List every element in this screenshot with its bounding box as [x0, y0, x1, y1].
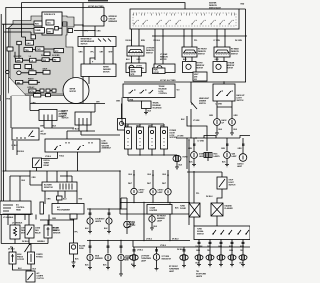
wire bus y214 [3, 213, 34, 215]
wire backup feed [223, 82, 225, 84]
svg-text:DK BLU: DK BLU [206, 196, 213, 198]
wire defog feed [36, 168, 38, 172]
svg-text:MOTOR: MOTOR [103, 71, 110, 73]
fuse STOP HAZ [54, 49, 64, 53]
side marker lamp 3 [118, 254, 124, 260]
headlight dimmer switch [191, 82, 197, 109]
fuse SI RD [53, 58, 60, 62]
reading lamps resistor [204, 153, 212, 158]
wire lt front drops [132, 56, 140, 63]
svg-text:MOTOR: MOTOR [160, 59, 167, 61]
wire left edge vertical A [0, 14, 2, 244]
cigar lighter box [147, 205, 172, 215]
wire glv ground [126, 228, 128, 234]
svg-text:LAMP: LAMP [237, 165, 243, 168]
rear defog relay box [33, 158, 42, 168]
wire red feed [239, 9, 246, 82]
svg-text:LAMP: LAMP [157, 219, 163, 222]
connector hash marks [198, 242, 245, 243]
connector RDO [34, 21, 42, 26]
svg-text:RELAY: RELAY [41, 132, 48, 135]
svg-text:LAMP: LAMP [169, 270, 175, 273]
svg-text:SWITCH: SWITCH [197, 233, 205, 235]
wire inline fuse feed [73, 219, 75, 243]
fuse TURN [24, 48, 32, 52]
wire lamp grounds to bus [134, 195, 168, 203]
wire bus y7.5 [6, 8, 104, 25]
fuse mid row extra 4 [25, 65, 32, 69]
svg-text:FITTING: FITTING [36, 256, 43, 258]
svg-text:SWITCH: SWITCH [62, 118, 70, 120]
ground st3 [219, 265, 223, 267]
wire to pressure switches [10, 244, 31, 253]
fuse STOP [43, 70, 50, 74]
svg-text:T BLU: T BLU [59, 156, 65, 158]
washer pump connector box [75, 112, 91, 125]
wire turn flasher feed [193, 171, 195, 203]
svg-text:DK BLU: DK BLU [126, 40, 133, 42]
svg-text:LT BLU: LT BLU [160, 245, 167, 247]
fuse HTR [29, 89, 36, 93]
svg-text:CLUTCH: CLUTCH [37, 278, 45, 280]
stop turn lamp 2 [206, 255, 214, 260]
wire programmer outs [40, 215, 74, 221]
wire inner elbow [121, 198, 127, 220]
cb label box [70, 214, 77, 219]
cargo lamp [239, 154, 247, 162]
arrowheads [133, 175, 169, 178]
backup lamp left [214, 119, 221, 126]
svg-text:DK BLU: DK BLU [18, 151, 25, 153]
wire pump feed [91, 104, 95, 113]
wire fan outs [1, 238, 48, 244]
svg-text:FLASHER: FLASHER [225, 207, 234, 210]
stop light switch [217, 177, 227, 189]
ground park2 [182, 266, 186, 268]
st turn indicator [153, 254, 159, 260]
ground dome [192, 165, 196, 167]
conn sq 2 [46, 89, 50, 92]
svg-text:DOOR: DOOR [154, 72, 160, 74]
wire park grounds [134, 260, 184, 268]
wire rt front drops [186, 57, 193, 61]
ground park1 [132, 266, 136, 268]
stop turn lamp 5 [239, 255, 247, 260]
svg-text:GRN/BLK: GRN/BLK [37, 241, 46, 243]
wire cluster drops [42, 152, 78, 171]
svg-text:RDO: RDO [35, 24, 39, 26]
bottom left smudge [0, 95, 2, 101]
svg-text:MOTOR: MOTOR [197, 67, 204, 69]
a/c compressor clutch switch [26, 271, 35, 282]
fuse PWR [36, 47, 44, 51]
wire link bus y36 [152, 35, 246, 37]
rt front marker lamp [149, 216, 155, 222]
compressor lamp 2 [106, 218, 112, 224]
panel oval B [17, 71, 21, 75]
svg-text:SWITCH: SWITCH [231, 53, 239, 55]
svg-text:SWITCH: SWITCH [198, 53, 206, 55]
svg-text:LAMP: LAMP [232, 155, 238, 158]
door lock motor 4 [161, 127, 168, 149]
a/c programmer box [52, 204, 84, 215]
ground st1 [197, 265, 201, 267]
svg-text:LT BLU: LT BLU [137, 250, 144, 252]
ground sm1 [88, 268, 92, 270]
wire comp grounds [90, 225, 109, 232]
svg-text:PARK: PARK [124, 258, 130, 261]
wire blower feeds [13, 141, 17, 155]
lt rear window motor [154, 64, 175, 73]
washer pump motor box [121, 104, 123, 119]
svg-text:LAMPS: LAMPS [214, 155, 221, 158]
wire park bus y247 [133, 241, 250, 248]
fuse LPS [31, 35, 36, 39]
wire breaker out [83, 3, 104, 37]
svg-text:HOT AT ALL TIMES: HOT AT ALL TIMES [88, 5, 104, 8]
bus y214 [120, 213, 190, 215]
switch contacts row [133, 14, 235, 25]
fuse TAIL [16, 80, 23, 84]
svg-text:RESISTOR: RESISTOR [44, 187, 54, 189]
top edge smudge [88, 0, 108, 1]
wire stop out [217, 189, 222, 203]
svg-text:DK BLU: DK BLU [154, 40, 161, 42]
vanity lamp [224, 152, 231, 159]
high pressure cutoff switch [9, 252, 16, 264]
wire compressor bus [87, 208, 121, 210]
panel circle L [6, 70, 9, 73]
headlight dimmer label box [193, 72, 207, 81]
lt front park lamp [130, 255, 138, 261]
a/c relay box [12, 128, 39, 140]
svg-text:HOT AT ALL TIMES: HOT AT ALL TIMES [160, 79, 176, 82]
wire between switches [13, 264, 32, 270]
svg-text:LT BLU: LT BLU [146, 239, 153, 241]
courtesy lamp 1 [131, 188, 137, 194]
fuse GAUGES [26, 40, 34, 45]
svg-text:SWITCH: SWITCH [146, 52, 154, 54]
svg-text:LT BLU: LT BLU [73, 129, 80, 131]
fuse WPR btm [34, 94, 41, 97]
svg-text:LIGHTER: LIGHTER [150, 210, 158, 212]
turn flasher [189, 203, 200, 217]
panel wire row4 [21, 60, 43, 73]
fuse block [42, 12, 62, 35]
wire marker bus y240 [87, 240, 190, 242]
ground sm3 [119, 274, 123, 276]
fuse RADIO [29, 80, 37, 84]
wire door lock grounds [128, 149, 177, 156]
ground turn ind [155, 269, 159, 271]
fuse aux [55, 26, 59, 30]
turn signal switch box [194, 226, 250, 240]
panel wire top row [22, 21, 26, 41]
svg-text:LT GRN: LT GRN [193, 120, 200, 122]
stop turn lamp 1 [195, 255, 203, 260]
trunk release solenoid [142, 101, 152, 109]
wire trunk drop [122, 98, 128, 125]
in car sensor box [47, 226, 52, 233]
wire flasher outs [194, 216, 217, 226]
svg-text:CHIME: CHIME [35, 30, 41, 32]
wire orn drop [30, 96, 39, 111]
wire backup outs [217, 101, 232, 119]
courtesy lamp 2 [150, 189, 156, 195]
svg-text:HTR A/C: HTR A/C [28, 86, 36, 89]
fuse ACC [46, 20, 54, 25]
wiper motor assembly box [81, 64, 116, 77]
wire lamp grounds [199, 260, 243, 264]
hazard flasher [211, 203, 223, 216]
panel stub right [58, 24, 95, 31]
svg-text:RELAY: RELAY [44, 164, 51, 167]
instrument cluster box [45, 139, 100, 152]
svg-text:LAMP: LAMP [141, 259, 147, 262]
conn sq 3 [52, 89, 56, 92]
rt front window switch connector [182, 47, 197, 57]
wire master drops left [132, 29, 164, 64]
svg-text:SW: SW [194, 79, 197, 81]
svg-text:LT GRN/BLK: LT GRN/BLK [3, 217, 14, 219]
wire dome drops [194, 138, 243, 154]
wire main bus y171 [3, 170, 121, 172]
narrow connector box [40, 202, 44, 214]
ground fuse [72, 262, 76, 268]
svg-text:CUTOFF: CUTOFF [17, 259, 25, 261]
wire top bus y2.6 [22, 3, 185, 21]
rt front park lamp [180, 255, 188, 261]
wire horn ground [176, 162, 178, 167]
compressor lamp 1 [87, 218, 93, 224]
svg-text:DK GRN: DK GRN [235, 40, 243, 42]
bus y202.5 [120, 202, 190, 204]
svg-text:MOTOR: MOTOR [70, 91, 77, 93]
courtesy lamp 3 [165, 189, 171, 195]
svg-text:DK BLU: DK BLU [8, 249, 15, 251]
wire head outs [8, 215, 36, 226]
fuse mid row extra 1 [44, 52, 50, 56]
junction [86, 130, 87, 131]
svg-text:SWITCH: SWITCH [229, 184, 237, 186]
svg-text:LAMP: LAMP [139, 191, 145, 194]
wire fuse ground [73, 254, 75, 262]
door lock motor 1 [125, 127, 132, 149]
backup lamp right [229, 119, 236, 126]
ground sm2 [106, 268, 110, 270]
wire brake feed [187, 172, 222, 177]
ground vanity [225, 165, 229, 167]
lt front window switch connector [127, 46, 144, 56]
svg-text:LAMP: LAMP [127, 225, 133, 228]
svg-text:DK BLU: DK BLU [172, 239, 179, 241]
rt rear window motor [213, 62, 227, 73]
stop turn lamp 3 [217, 255, 225, 260]
label box a [130, 68, 142, 77]
svg-text:SWITCH ASSY: SWITCH ASSY [209, 6, 222, 9]
svg-text:LT GRN/BLK: LT GRN/BLK [12, 223, 23, 225]
wire side marker drops [90, 241, 121, 254]
compressor fitting box [28, 252, 35, 264]
blower motor resistor [42, 182, 77, 191]
in-line fuse [70, 243, 78, 254]
connector small [17, 41, 22, 44]
trunk release dashed switch box [123, 84, 175, 98]
svg-text:W/S WPR: W/S WPR [33, 92, 41, 94]
svg-text:CONTROL: CONTROL [159, 93, 168, 95]
ground horn [175, 167, 179, 169]
stop turn lamp 4 [228, 255, 236, 260]
dome lamp [191, 152, 198, 159]
ground bu left [215, 133, 219, 135]
wire resistor outs [45, 191, 77, 204]
svg-text:SWITCH: SWITCH [199, 103, 207, 105]
fuse DIR [42, 58, 49, 62]
wire lamp panel left edge [119, 171, 121, 214]
fuse btm b [46, 94, 51, 97]
wire dome grounds [194, 158, 227, 165]
svg-text:INDICATOR: INDICATOR [162, 257, 172, 260]
panel wire row2 [2, 24, 34, 35]
wire hot bus y82 [124, 81, 246, 83]
svg-text:LT BLU: LT BLU [45, 156, 52, 158]
condenser fan motor [10, 225, 20, 239]
svg-text:LAMPS: LAMPS [196, 275, 203, 278]
wire relay feed [10, 96, 12, 128]
marker feeds down [144, 203, 170, 241]
svg-text:LT GRN: LT GRN [198, 141, 205, 143]
circuit breaker interior lamps [101, 16, 107, 22]
wire switch drops [84, 47, 113, 65]
back-up light switch [213, 84, 235, 101]
wiper motor circle [63, 78, 89, 104]
wire motor to pump bus [30, 77, 105, 104]
svg-text:LT GRN: LT GRN [214, 40, 221, 42]
wire to clutch [30, 270, 32, 271]
ground st4 [230, 265, 234, 267]
fuse 1.8 [30, 58, 37, 62]
svg-text:FUSE BLOCK: FUSE BLOCK [44, 14, 56, 16]
svg-text:LAMP: LAMP [158, 191, 164, 194]
panel wire row5 [23, 82, 52, 90]
wire courtesy feeds down [187, 138, 189, 225]
svg-text:SWITCH: SWITCH [237, 100, 245, 102]
side marker lamp 2 [105, 254, 111, 260]
glovebox lamp [124, 221, 131, 228]
wire solenoid ground [145, 109, 147, 113]
condenser fan relay [25, 225, 34, 238]
wire dome bus y138 [176, 136, 250, 139]
svg-text:SWITCH: SWITCH [81, 43, 89, 45]
fuse mid row extra 3 [14, 65, 21, 69]
rt front window motor [183, 62, 197, 73]
svg-text:HORN: HORN [183, 157, 189, 159]
svg-text:MARKER: MARKER [95, 257, 103, 260]
wire courtesy feed 1 [134, 170, 168, 189]
svg-text:LT GRN: LT GRN [177, 136, 184, 138]
wire rt rear drops [217, 57, 224, 61]
wire master drops right [184, 29, 225, 47]
svg-text:1.8: 1.8 [31, 60, 33, 62]
wire drop [94, 26, 96, 37]
ground st2 [208, 265, 212, 267]
fuse WS WIPER [15, 58, 22, 62]
svg-text:FLSHR: FLSHR [180, 208, 186, 210]
windshield wiper washer switch [78, 37, 116, 47]
svg-text:DK BLU: DK BLU [22, 241, 29, 243]
conn sq 1 [40, 89, 44, 92]
svg-text:LAMPS: LAMPS [95, 220, 102, 223]
instrument panel shaded region [9, 12, 75, 96]
ground solenoid [144, 113, 148, 115]
wire park feeds [134, 247, 184, 255]
arm connector acc [68, 29, 73, 33]
door lock motor 3 [149, 127, 156, 149]
power antenna connector box [39, 110, 57, 121]
ac cutoff diode [44, 225, 52, 238]
side marker lamp 1 [87, 254, 93, 260]
wire backup grounds [217, 125, 232, 133]
rt rear window switch connector [214, 47, 230, 57]
wire elbow to reading lamps [187, 116, 207, 151]
wire dimmer down [190, 109, 192, 138]
svg-text:ASSEMBLY: ASSEMBLY [102, 147, 112, 150]
label box b [153, 68, 166, 74]
door lock motor 2 [137, 127, 144, 149]
junction [82, 25, 84, 27]
svg-text:LT GRN: LT GRN [216, 104, 223, 106]
master window switch assembly box [130, 9, 239, 29]
ground st5 [241, 265, 245, 267]
svg-text:BREAKER: BREAKER [109, 20, 118, 23]
svg-text:RELAY: RELAY [59, 115, 66, 118]
panel wire row3 [15, 45, 54, 60]
fuse CHOKE [29, 71, 36, 75]
wire washer branch [90, 58, 95, 64]
ground bu right [230, 133, 234, 135]
wire left edge vertical B [3, 24, 5, 214]
svg-text:HEAD: HEAD [16, 208, 22, 211]
a/c control head box [0, 201, 31, 215]
svg-text:2.8 SI RD: 2.8 SI RD [52, 55, 60, 57]
wire pump drops [67, 125, 120, 139]
ground comp2 [107, 232, 111, 234]
svg-text:MOTOR: MOTOR [227, 67, 234, 69]
horn [173, 155, 181, 161]
tiny cal box [57, 196, 63, 200]
svg-text:DK GRN: DK GRN [196, 246, 204, 248]
connector CHIME [34, 28, 44, 33]
wire drops to fan boxes [15, 214, 48, 225]
arm connector b+ [63, 22, 68, 26]
wire sub bus y176 [10, 171, 42, 202]
fuse mid row extra 2 [7, 47, 13, 51]
svg-text:SENSOR: SENSOR [53, 232, 61, 234]
svg-text:RELAY: RELAY [35, 231, 42, 234]
fuse IGN [47, 29, 53, 34]
wire left edge vertical C [5, 24, 7, 171]
wire comp drops [90, 209, 109, 218]
wire marker grounds [151, 215, 153, 229]
wire antenna drops [44, 121, 74, 129]
svg-text:SOLENOID: SOLENOID [153, 107, 163, 109]
lt front window motor [126, 63, 146, 73]
svg-text:PROGRAMMER: PROGRAMMER [57, 208, 71, 211]
wire door lock bus [122, 124, 164, 127]
ground comp1 [88, 232, 92, 234]
wire side marker grounds [90, 261, 121, 274]
wire resistor feeds top [47, 171, 72, 182]
